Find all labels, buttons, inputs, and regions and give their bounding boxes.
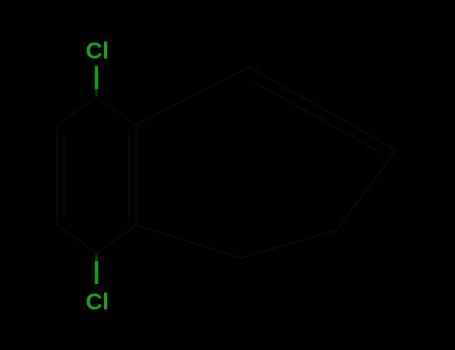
wire: benzene inner double bond (left edge)	[63, 133, 65, 217]
atom label Cl (top chlorine)	[86, 38, 109, 315]
bond C1-Cl (top, bright segment)	[95, 66, 98, 284]
benzene ring (dichlorophenyl), carbon skeleton	[57, 67, 396, 258]
bond stub at ring top vertex	[95, 89, 97, 261]
wire: fused large ring outline	[136, 67, 396, 258]
wire: large ring inner double bond (upper-right edge)	[254, 82, 381, 153]
bond stub at ring bottom vertex	[95, 254, 97, 261]
bond C4-Cl (bottom, bright segment)	[95, 261, 98, 284]
svg-text:Cl: Cl	[86, 289, 109, 315]
wire: benzene ring outline	[57, 97, 136, 253]
wire: benzene inner double bond (right edge)	[128, 133, 130, 217]
svg-text:Cl: Cl	[86, 38, 109, 64]
